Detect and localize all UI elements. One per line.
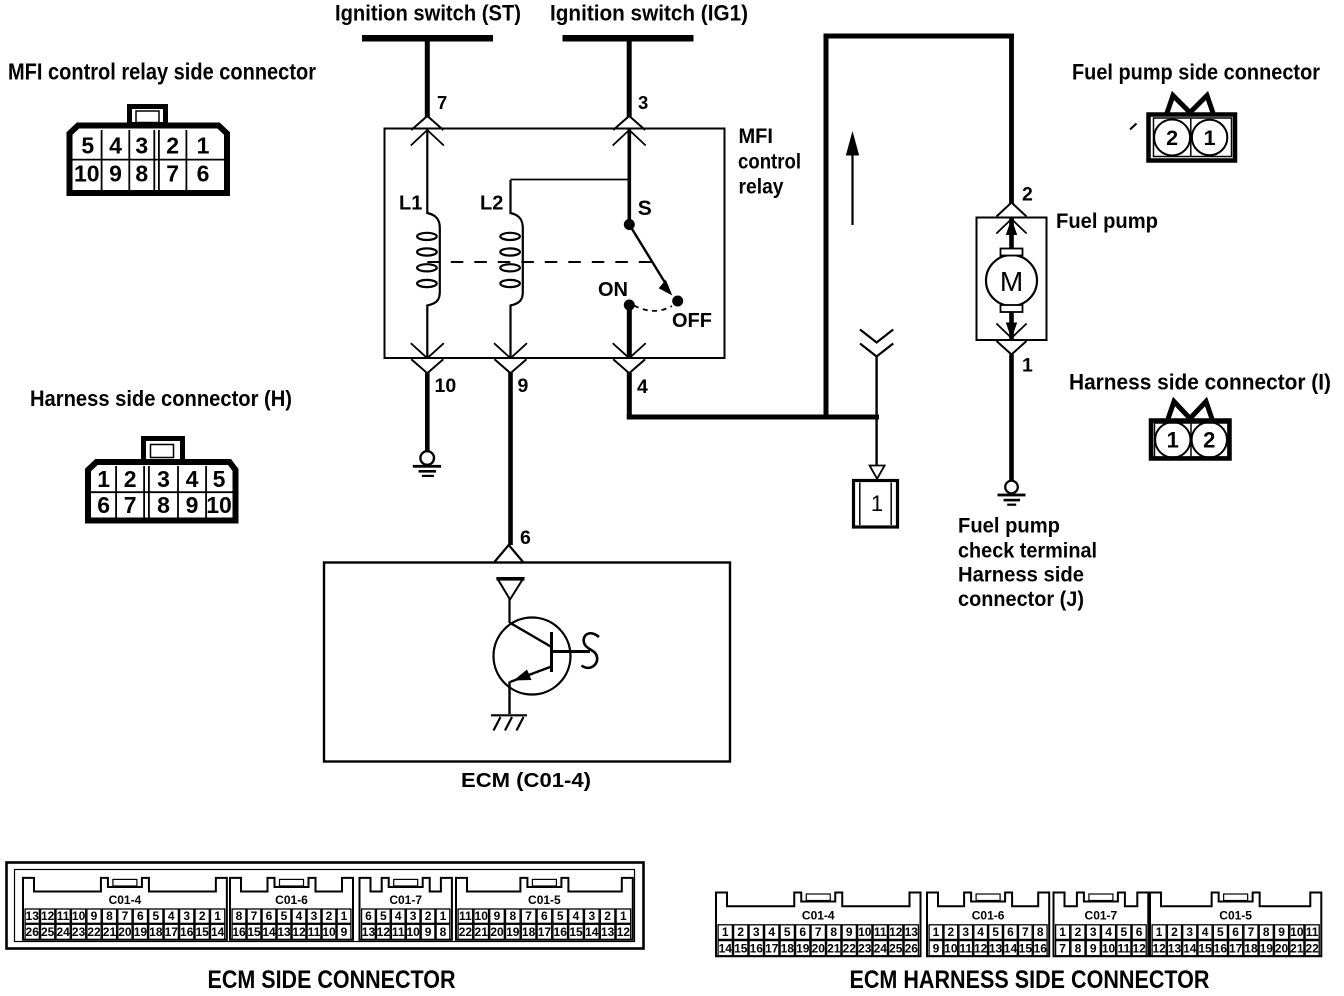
- svg-text:11: 11: [1118, 941, 1131, 955]
- connector symbol fuel pump pin 1: [996, 323, 1026, 355]
- svg-text:16: 16: [232, 925, 246, 939]
- connector symbol at relay pin 10: [411, 343, 444, 373]
- svg-text:20: 20: [1275, 941, 1289, 955]
- svg-text:6: 6: [1136, 925, 1143, 939]
- fuel pump check terminal box with 1: [854, 481, 898, 528]
- svg-text:5: 5: [152, 909, 159, 923]
- svg-text:18: 18: [1244, 941, 1258, 955]
- svg-text:C01-5: C01-5: [1219, 909, 1252, 923]
- svg-text:2: 2: [1171, 925, 1178, 939]
- svg-text:check terminal: check terminal: [958, 540, 1097, 563]
- ECM side connector block C01-5: [456, 878, 633, 940]
- svg-text:8: 8: [157, 492, 170, 518]
- svg-text:11: 11: [1306, 925, 1319, 939]
- svg-text:L2: L2: [480, 193, 503, 215]
- svg-text:4: 4: [186, 466, 199, 492]
- svg-text:14: 14: [1183, 941, 1197, 955]
- svg-text:2: 2: [1166, 126, 1178, 150]
- svg-text:relay: relay: [739, 176, 784, 199]
- svg-text:C01-6: C01-6: [972, 909, 1005, 923]
- svg-text:19: 19: [1260, 941, 1274, 955]
- svg-text:20: 20: [118, 925, 132, 939]
- svg-text:6: 6: [1007, 925, 1014, 939]
- svg-text:13: 13: [26, 909, 40, 923]
- svg-text:Fuel pump: Fuel pump: [958, 515, 1060, 538]
- svg-text:17: 17: [765, 941, 779, 955]
- wire pin 10 to ground: [425, 373, 430, 452]
- svg-text:1: 1: [1204, 126, 1216, 150]
- svg-text:OFF: OFF: [672, 310, 712, 332]
- connector symbol at relay pin 9: [494, 343, 527, 373]
- wire L2 feed from pin 3 branch: [511, 179, 629, 181]
- svg-text:9: 9: [91, 909, 98, 923]
- svg-text:16: 16: [554, 925, 568, 939]
- svg-text:1: 1: [933, 925, 940, 939]
- connector symbol at relay pin 7: [411, 116, 444, 146]
- stray tick mark: [1130, 124, 1137, 130]
- svg-text:C01-5: C01-5: [528, 893, 561, 907]
- svg-text:14: 14: [211, 925, 225, 939]
- svg-text:16: 16: [1214, 941, 1228, 955]
- svg-text:Fuel pump: Fuel pump: [1056, 210, 1158, 233]
- transistor ground: [491, 715, 527, 730]
- harness side connector H (10-pin): [88, 439, 236, 521]
- svg-text:6: 6: [197, 161, 210, 187]
- harness side connector I (2-pin): [1151, 402, 1230, 459]
- svg-text:24: 24: [56, 925, 70, 939]
- svg-text:2: 2: [124, 466, 137, 492]
- svg-text:Ignition switch (ST): Ignition switch (ST): [335, 1, 521, 26]
- ground at fuel pump: [998, 481, 1026, 506]
- svg-text:13: 13: [905, 925, 919, 939]
- svg-text:7: 7: [124, 492, 137, 518]
- svg-text:11: 11: [959, 941, 972, 955]
- svg-text:Harness side: Harness side: [958, 564, 1084, 587]
- hollow arrow into check terminal: [870, 466, 885, 479]
- svg-text:4: 4: [768, 925, 775, 939]
- svg-text:5: 5: [1217, 925, 1224, 939]
- svg-text:11: 11: [874, 925, 887, 939]
- svg-text:2: 2: [199, 909, 206, 923]
- svg-text:3: 3: [311, 909, 318, 923]
- svg-text:10: 10: [206, 492, 232, 518]
- svg-text:3: 3: [1090, 925, 1097, 939]
- svg-text:3: 3: [753, 925, 760, 939]
- base lead squiggle: [582, 633, 600, 668]
- svg-text:Fuel pump side connector: Fuel pump side connector: [1072, 60, 1320, 85]
- wire pin 4 horizontal run: [627, 415, 879, 420]
- svg-text:1: 1: [440, 909, 447, 923]
- svg-text:15: 15: [569, 925, 583, 939]
- ECM harness side connector block C01-5: [1150, 893, 1321, 957]
- svg-text:1: 1: [1022, 355, 1033, 377]
- svg-text:5: 5: [213, 466, 226, 492]
- wire fuel pump to ground: [1009, 355, 1014, 481]
- svg-text:26: 26: [905, 941, 919, 955]
- svg-text:7: 7: [525, 909, 532, 923]
- svg-text:5: 5: [784, 925, 791, 939]
- connector symbol at ECM pin 6: [494, 545, 524, 563]
- svg-text:3: 3: [157, 466, 170, 492]
- svg-text:4: 4: [395, 909, 402, 923]
- wire pin 4 to horizontal run: [627, 373, 632, 420]
- svg-text:21: 21: [827, 941, 841, 955]
- svg-text:ECM (C01-4): ECM (C01-4): [461, 769, 591, 792]
- svg-text:8: 8: [1075, 941, 1082, 955]
- svg-text:24: 24: [874, 941, 888, 955]
- svg-text:control: control: [738, 151, 801, 174]
- svg-text:9: 9: [846, 925, 853, 939]
- svg-text:5: 5: [81, 133, 94, 159]
- svg-text:9: 9: [1090, 941, 1097, 955]
- svg-text:6: 6: [266, 909, 273, 923]
- svg-text:3: 3: [183, 909, 190, 923]
- ECM harness side connector block C01-4: [716, 893, 921, 957]
- svg-text:4: 4: [1202, 925, 1209, 939]
- svg-text:9: 9: [186, 492, 199, 518]
- svg-text:10: 10: [322, 925, 336, 939]
- wire top horizontal to fuel pump: [824, 34, 1015, 39]
- svg-text:10: 10: [1102, 941, 1116, 955]
- svg-text:17: 17: [165, 925, 179, 939]
- svg-text:18: 18: [149, 925, 163, 939]
- ECM side connector block C01-6: [230, 878, 353, 940]
- fuel pump box: [977, 218, 1047, 341]
- svg-text:2: 2: [326, 909, 333, 923]
- svg-text:2: 2: [1022, 184, 1033, 206]
- wire IG1 to relay pin 3: [627, 42, 632, 118]
- ECM box: [324, 563, 730, 762]
- svg-text:4: 4: [637, 376, 648, 398]
- svg-text:5: 5: [281, 909, 288, 923]
- svg-text:15: 15: [195, 925, 209, 939]
- svg-text:23: 23: [72, 925, 86, 939]
- svg-text:19: 19: [134, 925, 148, 939]
- svg-text:ECM SIDE CONNECTOR: ECM SIDE CONNECTOR: [208, 966, 456, 994]
- svg-text:8: 8: [1037, 925, 1044, 939]
- svg-text:19: 19: [796, 941, 810, 955]
- svg-text:6: 6: [137, 909, 144, 923]
- wire vertical riser to top: [824, 34, 829, 420]
- svg-text:2: 2: [737, 925, 744, 939]
- svg-text:C01-4: C01-4: [109, 893, 142, 907]
- svg-text:Harness side connector (H): Harness side connector (H): [30, 386, 292, 411]
- ignition switch IG1 terminal bar: [563, 35, 694, 42]
- svg-text:2: 2: [425, 909, 432, 923]
- svg-text:10: 10: [72, 909, 86, 923]
- svg-text:17: 17: [1229, 941, 1243, 955]
- svg-text:6: 6: [1232, 925, 1239, 939]
- connector symbol fuel pump pin 2: [996, 203, 1026, 236]
- svg-text:15: 15: [247, 925, 261, 939]
- svg-text:2: 2: [166, 133, 179, 159]
- svg-text:5: 5: [380, 909, 387, 923]
- ECM side connector block C01-4: [23, 878, 227, 940]
- svg-text:2: 2: [1203, 428, 1215, 453]
- svg-text:22: 22: [87, 925, 101, 939]
- svg-text:6: 6: [520, 527, 531, 549]
- svg-text:C01-7: C01-7: [389, 893, 422, 907]
- svg-text:16: 16: [180, 925, 194, 939]
- svg-text:12: 12: [1132, 941, 1146, 955]
- svg-text:1: 1: [197, 133, 210, 159]
- svg-text:7: 7: [251, 909, 258, 923]
- svg-text:9: 9: [109, 161, 122, 187]
- svg-text:7: 7: [1248, 925, 1255, 939]
- svg-text:1: 1: [620, 909, 627, 923]
- svg-text:14: 14: [262, 925, 276, 939]
- ECM side connector outer box: [7, 863, 644, 949]
- svg-text:13: 13: [277, 925, 291, 939]
- svg-text:13: 13: [989, 941, 1003, 955]
- MFI control relay box: [385, 129, 725, 359]
- svg-text:2: 2: [948, 925, 955, 939]
- svg-text:1: 1: [722, 925, 729, 939]
- svg-text:C01-6: C01-6: [275, 893, 308, 907]
- svg-text:8: 8: [509, 909, 516, 923]
- relay switch S: [598, 197, 712, 332]
- svg-text:7: 7: [437, 92, 447, 113]
- svg-text:13: 13: [601, 925, 615, 939]
- svg-text:ON: ON: [598, 279, 628, 301]
- svg-text:1: 1: [214, 909, 221, 923]
- svg-text:1: 1: [1156, 925, 1163, 939]
- svg-text:20: 20: [812, 941, 826, 955]
- svg-text:2: 2: [604, 909, 611, 923]
- svg-text:5: 5: [1121, 925, 1128, 939]
- svg-text:4: 4: [168, 909, 175, 923]
- svg-text:12: 12: [974, 941, 988, 955]
- svg-text:7: 7: [122, 909, 129, 923]
- svg-text:12: 12: [617, 925, 631, 939]
- svg-text:22: 22: [1305, 941, 1319, 955]
- svg-text:21: 21: [103, 925, 117, 939]
- svg-text:12: 12: [292, 925, 306, 939]
- svg-text:9: 9: [425, 925, 432, 939]
- svg-text:7: 7: [166, 161, 179, 187]
- svg-text:9: 9: [518, 375, 529, 397]
- wire pin 9 to ECM pin 6: [508, 373, 513, 546]
- connector symbol at relay pin 3: [613, 116, 646, 146]
- relay coil L1: [399, 129, 440, 358]
- svg-text:3: 3: [135, 133, 148, 159]
- ECM harness side connector block C01-7: [1054, 893, 1149, 957]
- svg-text:10: 10: [74, 161, 100, 187]
- svg-text:10: 10: [944, 941, 958, 955]
- svg-text:25: 25: [41, 925, 55, 939]
- branch wire to fuel pump check terminal: [875, 356, 877, 466]
- svg-text:6: 6: [365, 909, 372, 923]
- svg-text:M: M: [1000, 266, 1023, 297]
- fuel pump motor M: [986, 218, 1037, 339]
- svg-text:4: 4: [977, 925, 984, 939]
- svg-text:12: 12: [889, 925, 903, 939]
- svg-text:C01-7: C01-7: [1085, 909, 1118, 923]
- svg-text:18: 18: [781, 941, 795, 955]
- svg-text:11: 11: [57, 909, 70, 923]
- svg-text:21: 21: [475, 925, 489, 939]
- svg-text:9: 9: [341, 925, 348, 939]
- svg-text:2: 2: [1075, 925, 1082, 939]
- svg-text:12: 12: [377, 925, 391, 939]
- svg-text:4: 4: [109, 133, 122, 159]
- svg-text:15: 15: [1198, 941, 1212, 955]
- wire pin 3 to switch contact S: [628, 129, 632, 225]
- relay coil L2: [480, 180, 523, 358]
- svg-text:14: 14: [1004, 941, 1018, 955]
- MFI control relay side connector (10-pin): [70, 107, 228, 194]
- svg-text:13: 13: [362, 925, 376, 939]
- svg-text:9: 9: [933, 941, 940, 955]
- svg-text:14: 14: [719, 941, 733, 955]
- svg-text:L1: L1: [399, 193, 422, 215]
- svg-text:11: 11: [308, 925, 321, 939]
- svg-text:9: 9: [1278, 925, 1285, 939]
- svg-text:8: 8: [106, 909, 113, 923]
- svg-text:8: 8: [236, 909, 243, 923]
- svg-text:ECM HARNESS SIDE CONNECTOR: ECM HARNESS SIDE CONNECTOR: [850, 966, 1210, 994]
- svg-text:S: S: [638, 197, 652, 220]
- svg-text:1: 1: [97, 466, 110, 492]
- svg-text:1: 1: [1059, 925, 1066, 939]
- ECM harness side connector block C01-6: [927, 893, 1049, 957]
- svg-text:8: 8: [135, 161, 148, 187]
- label: MFI control relay: [738, 124, 801, 199]
- svg-text:MFI: MFI: [739, 124, 774, 148]
- svg-text:10: 10: [475, 909, 489, 923]
- wire down to fuel pump pin 2: [1009, 39, 1014, 205]
- svg-text:3: 3: [962, 925, 969, 939]
- svg-text:5: 5: [557, 909, 564, 923]
- svg-text:6: 6: [541, 909, 548, 923]
- svg-text:4: 4: [296, 909, 303, 923]
- svg-text:12: 12: [1152, 941, 1166, 955]
- svg-text:12: 12: [41, 909, 55, 923]
- wire switch ON to pin 4: [627, 303, 632, 359]
- svg-text:7: 7: [1059, 941, 1066, 955]
- svg-text:connector (J): connector (J): [958, 588, 1084, 611]
- connector symbol at relay pin 4: [613, 343, 646, 373]
- svg-text:26: 26: [26, 925, 40, 939]
- svg-text:6: 6: [799, 925, 806, 939]
- svg-text:8: 8: [830, 925, 837, 939]
- svg-text:15: 15: [734, 941, 748, 955]
- svg-text:23: 23: [858, 941, 872, 955]
- svg-text:9: 9: [494, 909, 501, 923]
- svg-text:21: 21: [1290, 941, 1304, 955]
- svg-text:10: 10: [858, 925, 872, 939]
- svg-text:22: 22: [459, 925, 473, 939]
- input triangle symbol in ECM: [498, 579, 524, 600]
- label: Fuel pump check terminal Harness side connector (J): [958, 515, 1097, 612]
- svg-text:3: 3: [410, 909, 417, 923]
- svg-text:15: 15: [1019, 941, 1033, 955]
- svg-text:3: 3: [638, 92, 648, 113]
- svg-text:10: 10: [1290, 925, 1304, 939]
- svg-text:4: 4: [1105, 925, 1112, 939]
- current direction arrow: [846, 131, 859, 225]
- svg-text:4: 4: [573, 909, 580, 923]
- svg-text:20: 20: [490, 925, 504, 939]
- svg-text:11: 11: [392, 925, 405, 939]
- transistor Q1 in ECM: [494, 598, 591, 714]
- svg-text:3: 3: [588, 909, 595, 923]
- svg-text:C01-4: C01-4: [802, 909, 835, 923]
- svg-text:Ignition switch (IG1): Ignition switch (IG1): [550, 1, 748, 26]
- svg-text:16: 16: [750, 941, 764, 955]
- ground at pin 10: [413, 451, 441, 477]
- svg-text:10: 10: [406, 925, 420, 939]
- dashed mechanical link line: [427, 261, 652, 263]
- svg-text:18: 18: [522, 925, 536, 939]
- ignition switch ST terminal bar: [362, 35, 493, 42]
- svg-text:22: 22: [843, 941, 857, 955]
- svg-text:1: 1: [341, 909, 348, 923]
- svg-text:25: 25: [889, 941, 903, 955]
- svg-text:8: 8: [1263, 925, 1270, 939]
- svg-text:8: 8: [440, 925, 447, 939]
- svg-text:MFI control relay side connect: MFI control relay side connector: [8, 59, 316, 85]
- wire ST to relay pin 7: [425, 42, 430, 118]
- svg-text:11: 11: [459, 909, 472, 923]
- svg-text:14: 14: [585, 925, 599, 939]
- svg-text:17: 17: [538, 925, 552, 939]
- svg-text:Harness side connector (I): Harness side connector (I): [1069, 370, 1331, 395]
- ECM side connector block C01-7: [360, 878, 452, 940]
- svg-text:3: 3: [1186, 925, 1193, 939]
- inline connector double chevron: [860, 330, 893, 357]
- svg-text:19: 19: [506, 925, 520, 939]
- svg-text:1: 1: [871, 491, 883, 516]
- svg-text:16: 16: [1034, 941, 1048, 955]
- svg-text:5: 5: [992, 925, 999, 939]
- svg-text:1: 1: [1167, 428, 1179, 453]
- svg-text:7: 7: [1022, 925, 1029, 939]
- svg-text:7: 7: [815, 925, 822, 939]
- fuel pump side connector (2-pin): [1149, 96, 1236, 161]
- svg-text:13: 13: [1168, 941, 1182, 955]
- svg-text:10: 10: [435, 375, 457, 397]
- svg-text:6: 6: [97, 492, 110, 518]
